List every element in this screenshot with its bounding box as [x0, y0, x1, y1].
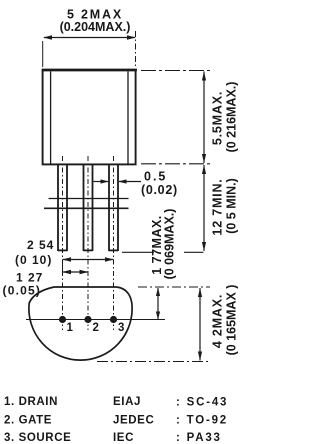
svg-text:4 2MAX.: 4 2MAX.	[211, 294, 225, 348]
body inner mold line left	[50, 72, 52, 165]
svg-text:(0 216MAX.): (0 216MAX.)	[225, 82, 239, 153]
dimension line 5.2MAX	[44, 37, 135, 39]
svg-text:3: 3	[118, 322, 124, 334]
svg-text:: PA33: : PA33	[176, 432, 222, 444]
extension line at flat face (dash)	[138, 286, 210, 288]
svg-text:(0.204MAX.): (0.204MAX.)	[60, 20, 131, 34]
package body outline	[43, 70, 136, 164]
extension line at lead tips	[122, 251, 154, 253]
svg-text:(0 10): (0 10)	[15, 253, 52, 267]
dimension line 1.27 half span	[63, 271, 89, 273]
svg-text:: SC-43: : SC-43	[176, 397, 228, 409]
dimension line 12.7MIN	[203, 165, 205, 251]
svg-text:2. GATE: 2. GATE	[4, 415, 52, 427]
pin 3 dot	[110, 316, 117, 323]
extension line left of 5.2MAX	[42, 41, 44, 67]
svg-text:1 27: 1 27	[16, 271, 43, 285]
lead break line upper	[49, 198, 129, 200]
lead 3 centerline	[113, 156, 115, 330]
dimension line 4.2MAX	[199, 288, 201, 361]
right extension line at body top (dash-dot)	[141, 70, 212, 72]
dimension line 5.5MAX	[203, 72, 205, 164]
body top edge thick	[42, 69, 137, 72]
lead 1	[57, 165, 59, 251]
svg-text:2 54: 2 54	[27, 238, 54, 252]
bottom view outline	[29, 287, 132, 360]
svg-text:3. SOURCE: 3. SOURCE	[4, 432, 71, 444]
svg-text:1. DRAIN: 1. DRAIN	[4, 396, 58, 408]
dimension line 1.77MAX	[157, 288, 159, 319]
svg-text:EIAJ: EIAJ	[113, 396, 141, 408]
svg-text:1: 1	[67, 322, 74, 334]
svg-text:5.5MAX.: 5.5MAX.	[211, 91, 225, 145]
svg-text:12 7MIN.: 12 7MIN.	[211, 178, 225, 235]
svg-text:2: 2	[93, 322, 99, 334]
svg-text:0.5: 0.5	[144, 170, 167, 184]
svg-text:: TO-92: : TO-92	[176, 415, 228, 427]
svg-text:IEC: IEC	[113, 432, 134, 444]
pin function and package code table	[4, 396, 228, 444]
lead 1 centerline	[62, 156, 64, 330]
dimension 0.5 lead width arrows	[94, 181, 109, 183]
pin 1 dot	[59, 316, 66, 323]
svg-text:(0.02): (0.02)	[141, 183, 178, 197]
svg-text:(0 5 MIN.): (0 5 MIN.)	[225, 178, 239, 234]
body inner mold line right	[127, 72, 129, 165]
lead break line lower	[44, 207, 129, 209]
extension line right of 5.2MAX (dash-dot)	[135, 31, 137, 67]
lead 3	[108, 165, 110, 251]
svg-text:(0 069MAX.): (0 069MAX.)	[163, 209, 177, 280]
svg-text:JEDEC: JEDEC	[113, 415, 154, 427]
pin 2 dot	[84, 316, 91, 323]
extension tick for 1.27 at lead1	[62, 264, 64, 277]
svg-text:(0 165MAX ): (0 165MAX )	[225, 285, 239, 356]
lead 2	[83, 165, 85, 251]
pin row reference line	[26, 319, 165, 321]
right extension line at body bottom (dash-dot)	[141, 163, 212, 165]
dimension line 2.54 outer lead span	[63, 259, 114, 261]
lead 2 centerline	[87, 156, 89, 330]
extension line at case bottom (dash)	[97, 361, 210, 363]
